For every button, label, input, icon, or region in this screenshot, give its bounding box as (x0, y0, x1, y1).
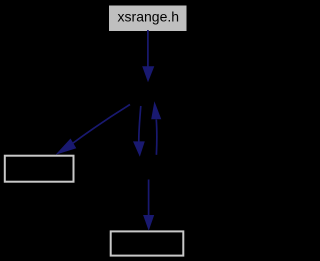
node xsrange.h (current node, gray fill) (109, 6, 187, 32)
edge hidden node A -> hidden node B (down, cycle) (133, 106, 145, 157)
edge hidden node B -> hidden node A (up, cycle) (151, 101, 161, 155)
edge hidden node B -> bottom node (vertical with arrowhead) (143, 180, 154, 231)
node (left, border only) (5, 156, 74, 182)
edge hidden node A -> left node (diagonal with arrowhead) (56, 105, 131, 155)
node (bottom, border only) (111, 231, 184, 255)
svg-text:xsrange.h: xsrange.h (118, 9, 179, 25)
edge xsrange.h -> hidden node A (vertical with down arrowhead) (142, 30, 154, 82)
